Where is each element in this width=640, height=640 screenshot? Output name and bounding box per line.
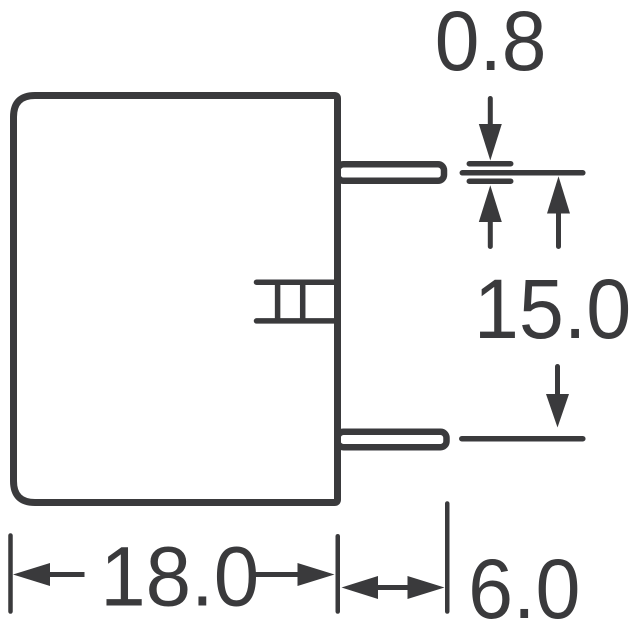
relay body outline — [14, 96, 338, 503]
arrow up to pin-1 centerline (15.0 upper) — [547, 176, 570, 213]
extension line body left — [8, 536, 13, 612]
arrow up to pin-1 bottom — [479, 185, 502, 222]
arrow right (18.0) — [255, 572, 299, 577]
reference line pin-2 centerline — [462, 436, 583, 442]
pin 1 (top lead) — [338, 164, 445, 181]
coil detail lower line — [257, 318, 338, 324]
extension line pin tip — [445, 504, 450, 612]
arrow right (6.0) — [408, 576, 445, 599]
pin 2 (bottom lead) — [338, 432, 447, 447]
arrow down to pin-2 centerline (15.0 lower) — [555, 367, 560, 399]
svg-text:15.0: 15.0 — [474, 262, 631, 356]
arrow down to pin-1 top — [488, 99, 493, 126]
coil detail bar 2 — [300, 282, 306, 321]
coil detail bar 1 — [275, 282, 281, 321]
extension line body right — [336, 536, 341, 611]
arrow left (18.0) — [13, 563, 50, 586]
svg-text:0.8: 0.8 — [435, 0, 547, 88]
arrow left (6.0) — [342, 576, 379, 599]
svg-text:18.0: 18.0 — [100, 530, 259, 624]
svg-text:6.0: 6.0 — [468, 542, 580, 636]
coil detail upper line — [257, 279, 338, 285]
reference line pin-1 centerline — [462, 170, 583, 176]
dimension line 6.0 — [376, 585, 409, 590]
tick line pin-1 bottom surface — [469, 178, 510, 184]
tick line pin-1 top surface — [469, 161, 510, 167]
